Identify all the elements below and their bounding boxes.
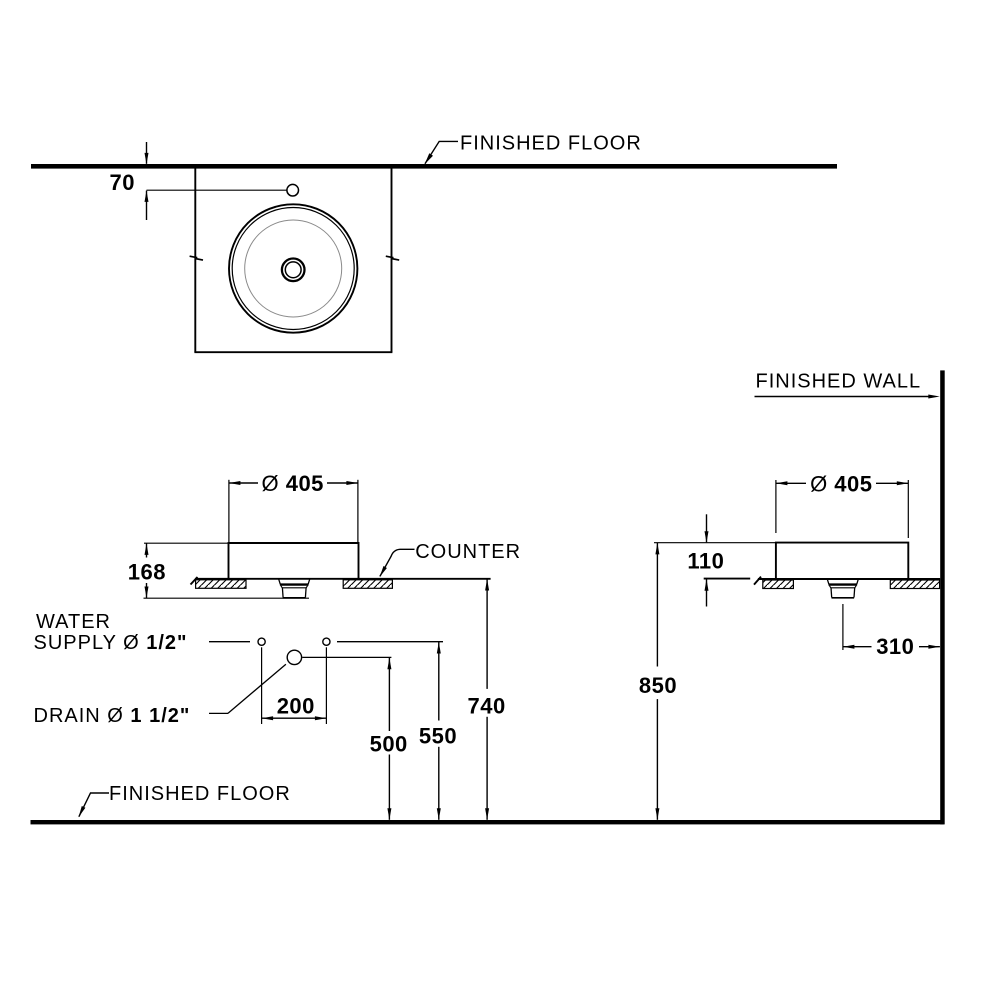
dimension 310: extension line <box>842 604 844 650</box>
svg-text:740: 740 <box>467 693 505 718</box>
faucet centre line <box>147 189 287 191</box>
label DRAIN <box>34 705 191 727</box>
svg-text:110: 110 <box>687 549 724 574</box>
dimension 200: dimension line, arrows, text <box>262 694 327 721</box>
counter hatch right (front) <box>343 580 392 589</box>
counter hatch right (side) <box>890 580 939 589</box>
basin outer rim circle (plan) <box>229 204 357 332</box>
water supply hole left <box>258 638 265 645</box>
drain hole (front elevation) <box>287 650 301 664</box>
svg-text:500: 500 <box>370 731 408 756</box>
dimension 110 <box>687 514 750 606</box>
dimension D405 front: extension lines <box>229 480 358 542</box>
drain fitting (front elevation) <box>279 579 310 598</box>
svg-text:70: 70 <box>110 170 135 195</box>
drain line to 500 dim <box>302 656 391 658</box>
water supply leader line <box>209 641 250 643</box>
basin body (front elevation) <box>229 543 359 578</box>
counter line (side elevation) <box>754 577 940 585</box>
counter hatch left (side) <box>763 580 794 589</box>
svg-text:FINISHED FLOOR: FINISHED FLOOR <box>460 132 642 154</box>
svg-text:COUNTER: COUNTER <box>415 541 521 563</box>
dimension D405 side: extension lines <box>776 480 908 538</box>
dimension D405 front: dimension line with arrows <box>229 471 358 496</box>
dimension 850: dimension line, arrows, text <box>639 543 677 820</box>
label COUNTER with leader <box>380 541 521 577</box>
drain leader diagonal <box>209 664 286 713</box>
dimension 310: dimension line, arrows, text <box>843 634 940 659</box>
svg-text:Ø 405: Ø 405 <box>810 471 872 496</box>
svg-text:FINISHED WALL: FINISHED WALL <box>756 371 922 393</box>
counter cutout square (plan) <box>194 169 392 353</box>
svg-text:850: 850 <box>639 673 677 698</box>
water supply line to 550 dim <box>337 641 443 643</box>
finished floor edge line (plan, thick) <box>31 164 837 169</box>
label WATER SUPPLY <box>34 611 188 654</box>
svg-text:FINISHED FLOOR: FINISHED FLOOR <box>109 783 291 805</box>
water supply hole right <box>323 638 330 645</box>
svg-text:SUPPLY Ø 1/2": SUPPLY Ø 1/2" <box>34 632 188 654</box>
label FINISHED FLOOR (bottom) with leader <box>79 783 291 817</box>
dimension D405 side: dimension line, arrows, text <box>776 471 908 496</box>
finished wall line (thick vertical) <box>940 370 945 824</box>
basin inner rim circle (plan) <box>232 208 354 330</box>
finished floor line (bottom, thick) <box>31 820 944 824</box>
svg-text:WATER: WATER <box>36 611 111 633</box>
counter hatch left (front) <box>196 580 246 589</box>
label FINISHED WALL with leader <box>755 371 940 399</box>
svg-text:168: 168 <box>128 559 166 584</box>
dimension 200: extension lines <box>262 647 327 724</box>
counter line (front elevation) <box>191 577 491 585</box>
faucet hole circle (plan) <box>287 184 299 196</box>
break mark left side <box>190 256 203 260</box>
svg-text:DRAIN Ø 1 1/2": DRAIN Ø 1 1/2" <box>34 705 191 727</box>
drain fitting (side elevation) <box>827 579 858 598</box>
dimension 550 <box>419 642 457 820</box>
drain hole outer (plan) <box>282 259 305 282</box>
drain hole inner (plan) <box>285 262 301 278</box>
dimension 500 <box>370 658 408 820</box>
dimension 70 <box>110 142 149 220</box>
basin body (side elevation) <box>776 543 908 579</box>
svg-text:200: 200 <box>277 694 315 719</box>
label FINISHED FLOOR (top) <box>460 132 642 154</box>
dimension 168: dimension line, arrows, text <box>128 543 166 598</box>
leader to finished floor line (top) <box>425 141 458 164</box>
svg-text:Ø 405: Ø 405 <box>261 471 323 496</box>
basin bowl circle (plan, thin) <box>245 220 342 317</box>
dimension 168: extension lines <box>144 543 310 598</box>
svg-text:310: 310 <box>876 634 914 659</box>
dimension 850: extension line <box>654 542 776 544</box>
break mark right side <box>386 256 399 260</box>
svg-text:550: 550 <box>419 723 457 748</box>
dimension 740 <box>467 579 505 820</box>
